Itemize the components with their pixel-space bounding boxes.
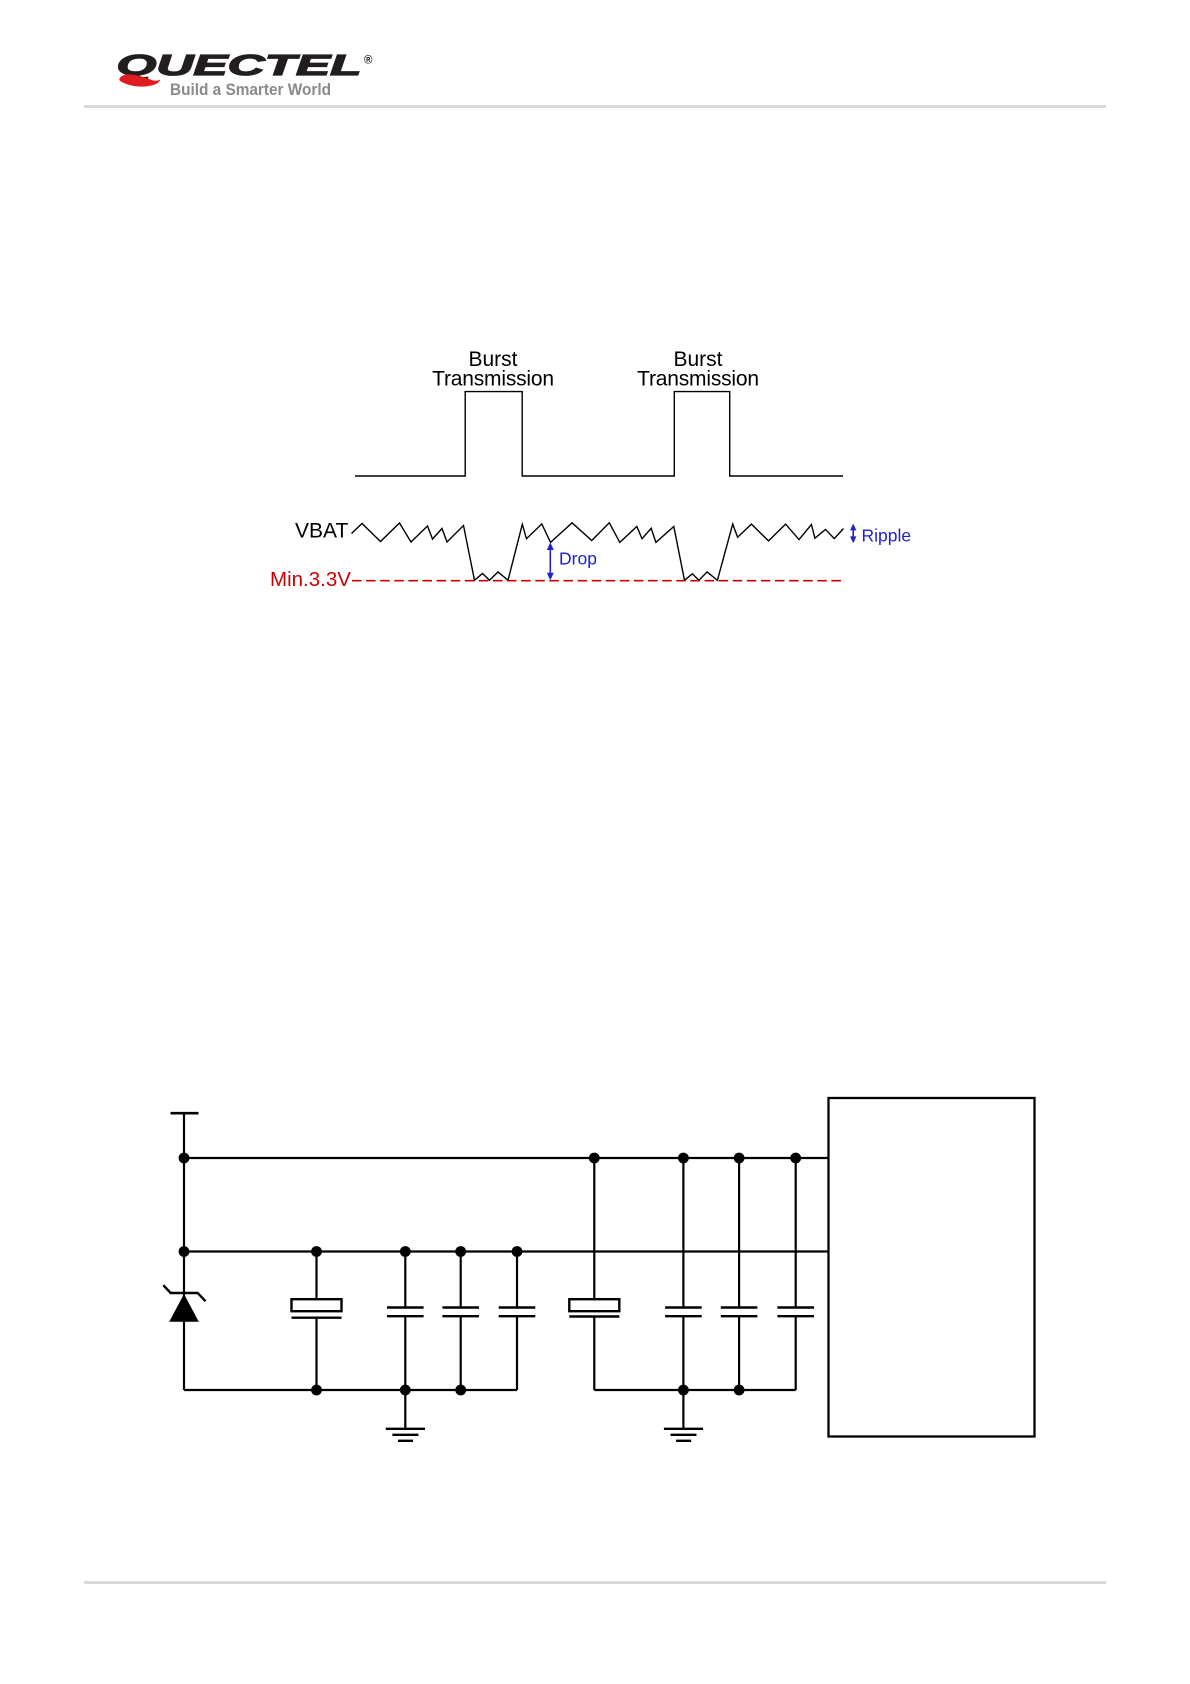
node mid-left xyxy=(179,1246,190,1257)
node bottom C1 xyxy=(311,1385,322,1396)
VBAT supply rail bar xyxy=(171,1112,199,1115)
Drop arrow xyxy=(549,547,551,576)
header rule xyxy=(84,105,1106,108)
svg-text:Ripple: Ripple xyxy=(862,526,912,546)
reference circuit schematic xyxy=(0,1080,1100,1460)
svg-text:Build a Smarter World: Build a Smarter World xyxy=(170,81,331,99)
node top C5 xyxy=(589,1153,600,1164)
node mid C4 xyxy=(512,1246,523,1257)
wire second VBAT rail xyxy=(184,1250,829,1252)
ground 1 xyxy=(386,1390,425,1441)
node bottom C7 xyxy=(734,1385,745,1396)
burst pulse train xyxy=(355,392,843,476)
module U1 xyxy=(829,1098,1035,1437)
node mid C2 xyxy=(400,1246,411,1257)
capacitor C7 xyxy=(721,1158,758,1390)
svg-text:Transmission: Transmission xyxy=(637,368,759,391)
node bottom C3 xyxy=(455,1385,466,1396)
capacitor C3 xyxy=(442,1252,479,1391)
node bottom C6 xyxy=(678,1385,689,1396)
node top C8 xyxy=(790,1153,801,1164)
zener diode D1 xyxy=(163,1285,205,1322)
junction dots xyxy=(179,1153,802,1396)
wire bottom left ground bus xyxy=(184,1389,517,1391)
wire left vertical xyxy=(183,1113,185,1390)
node top C6 xyxy=(678,1153,689,1164)
Min 3.3V dashed limit line xyxy=(352,580,843,582)
capacitor C2 xyxy=(387,1252,424,1391)
node top-left xyxy=(179,1153,190,1164)
capacitor C4 xyxy=(499,1252,536,1391)
node top C7 xyxy=(734,1153,745,1164)
footer rule xyxy=(84,1581,1106,1584)
node mid C1 xyxy=(311,1246,322,1257)
node bottom C2 xyxy=(400,1385,411,1396)
svg-text:Transmission: Transmission xyxy=(432,368,554,391)
capacitor C5 (bulk, right) xyxy=(569,1158,619,1390)
wire bottom right ground bus xyxy=(594,1389,795,1391)
Quectel logo xyxy=(0,0,420,120)
svg-text:QUECTEL: QUECTEL xyxy=(117,50,362,82)
ground 2 xyxy=(664,1390,703,1441)
VBAT ripple waveform xyxy=(352,523,844,581)
node mid C3 xyxy=(455,1246,466,1257)
Ripple arrow xyxy=(852,527,854,540)
svg-text:VBAT: VBAT xyxy=(295,520,348,543)
capacitor C6 xyxy=(665,1158,702,1390)
capacitor C8 xyxy=(777,1158,814,1390)
capacitor C1 (bulk, left) xyxy=(292,1252,342,1391)
svg-text:Drop: Drop xyxy=(559,549,597,569)
waveform diagram xyxy=(0,330,960,610)
wire top VBAT rail xyxy=(184,1157,829,1159)
svg-text:®: ® xyxy=(364,55,373,67)
svg-text:Min.3.3V: Min.3.3V xyxy=(270,568,351,591)
